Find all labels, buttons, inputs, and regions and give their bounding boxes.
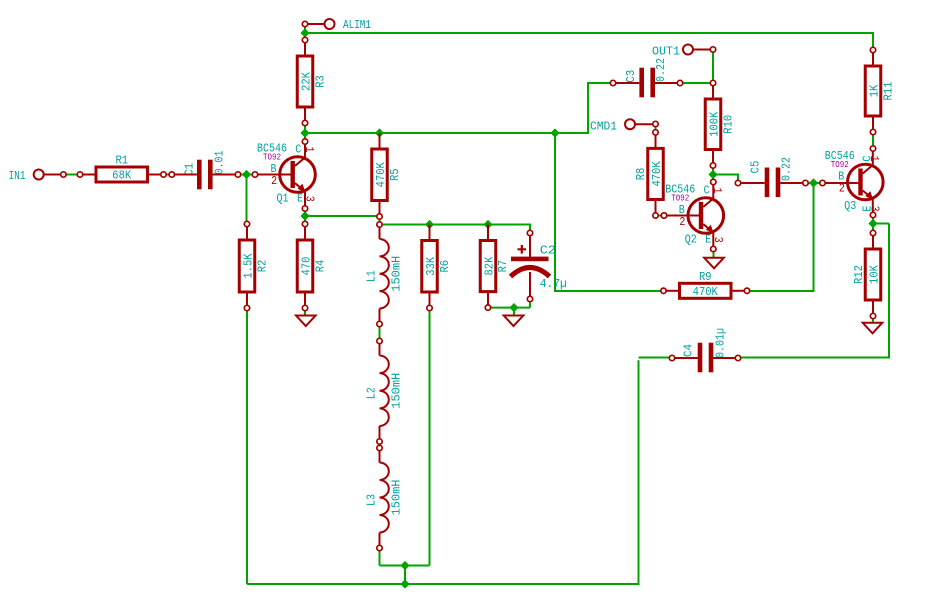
wire net Q3 emitter to R12 and R12 to ground [872, 217, 874, 323]
pin wires C5 [741, 182, 803, 184]
wire net node A (R3 bottom to C3) [305, 83, 611, 139]
ground below C2 [504, 316, 524, 327]
wire net feedback rail (R2 bottom / C4 left) [247, 311, 669, 584]
pin end R7 [485, 305, 490, 310]
pin wires C4 [675, 357, 736, 359]
svg-text:33K: 33K [424, 256, 438, 276]
svg-text:R6: R6 [438, 260, 452, 273]
pin end ALIM1 [302, 21, 307, 26]
svg-text:C2: C2 [540, 244, 556, 258]
wire net R7/C2 bottom to ground [491, 302, 530, 316]
inductor L1 [365, 225, 404, 325]
junction Q3 emitter / R12 / C4 [868, 219, 877, 228]
junction R7 top [483, 220, 492, 229]
svg-text:C: C [704, 184, 710, 198]
svg-text:TO92: TO92 [263, 153, 281, 163]
pin ends C2 [527, 230, 532, 235]
pin ends R3 [302, 37, 307, 42]
svg-text:C4: C4 [682, 344, 696, 357]
resistor R3 [297, 40, 327, 123]
svg-text:L1: L1 [365, 270, 379, 282]
svg-text:R10: R10 [721, 115, 735, 134]
pin OUT1 [652, 45, 710, 59]
capacitor C2 (polarized 4.7µ) [511, 236, 567, 297]
pin end R5 [377, 214, 382, 219]
resistor R12 [852, 233, 882, 316]
pin ends C1 [169, 172, 174, 177]
junction R3 bottom [300, 128, 309, 137]
svg-text:TO92: TO92 [831, 160, 849, 170]
pin wires C1 [174, 174, 235, 176]
svg-text:E: E [705, 232, 711, 246]
ground below Q2 [704, 258, 724, 269]
wire net L1 to L2 [379, 327, 381, 339]
capacitor C3 [624, 58, 668, 97]
resistor R7 [480, 225, 510, 308]
svg-text:470K: 470K [650, 161, 664, 187]
wire net L2 to L3 [379, 444, 381, 445]
svg-text:C5: C5 [749, 161, 763, 174]
svg-text:150mH: 150mH [390, 373, 404, 409]
wire net R5 to L1 [379, 219, 381, 222]
junction L3/R6 bottom node [400, 561, 409, 570]
svg-text:R2: R2 [255, 260, 269, 273]
svg-text:C: C [295, 143, 301, 157]
svg-text:2: 2 [679, 215, 685, 229]
svg-text:0.01µ: 0.01µ [714, 328, 728, 358]
pin ends R12 [870, 230, 875, 235]
wire net L3/R6 bottom [380, 311, 430, 584]
svg-text:82K: 82K [483, 256, 497, 276]
wire net R4 to ground [304, 311, 306, 316]
junction R5 top [375, 128, 384, 137]
pin wire Q1 base [258, 174, 291, 176]
svg-text:3: 3 [867, 206, 881, 212]
svg-text:100K: 100K [708, 111, 722, 137]
wire net Q1 emitter node [305, 211, 377, 221]
svg-text:ALIM1: ALIM1 [343, 18, 371, 32]
pin CMD1 [590, 119, 653, 133]
svg-text:0.22: 0.22 [654, 58, 668, 82]
resistor R9 [664, 270, 748, 299]
wire net R1 to C1 [166, 174, 169, 176]
svg-text:R8: R8 [634, 168, 648, 181]
wire net Q2 collector node to C5 [713, 168, 738, 180]
svg-text:R11: R11 [881, 82, 895, 101]
pin wire Q2 base [667, 215, 699, 217]
svg-text:IN1: IN1 [9, 169, 26, 183]
svg-text:22K: 22K [300, 71, 314, 91]
junction R6 top [425, 220, 434, 229]
svg-text:1K: 1K [868, 84, 882, 97]
wire net L1 top rail to C2 [382, 225, 530, 231]
pin ends Q2 [661, 213, 666, 218]
svg-text:150mH: 150mH [390, 256, 404, 292]
resistor R4 [297, 224, 327, 308]
pin ends C4 [669, 355, 674, 360]
svg-text:R1: R1 [115, 154, 128, 168]
pin IN1 [9, 169, 62, 183]
pin ends R11 [870, 47, 875, 52]
pin ends Q1 [252, 172, 257, 177]
junction Q2 collector / C5 [708, 170, 717, 179]
svg-text:150mH: 150mH [390, 480, 404, 516]
pin ends L2 [377, 338, 382, 343]
pin end R6 [427, 305, 432, 310]
junction Q1 emitter / R4 [300, 211, 309, 220]
svg-text:Q2: Q2 [685, 232, 697, 246]
svg-text:1: 1 [710, 188, 724, 194]
svg-text:1: 1 [302, 147, 316, 153]
pin ends C3 [610, 80, 615, 85]
junction bottom rail node [400, 579, 409, 588]
svg-text:R4: R4 [313, 260, 327, 273]
pin wire Q3 base [825, 182, 858, 184]
wire net R8 to Q2 base [658, 215, 661, 217]
capacitor C5 [749, 157, 794, 197]
svg-text:3: 3 [303, 196, 317, 202]
junction ALIM rail at R3 [300, 28, 309, 37]
resistor R6 [422, 225, 452, 309]
resistor R11 [865, 50, 895, 132]
svg-text:68K: 68K [112, 169, 132, 183]
svg-text:0.01: 0.01 [213, 151, 227, 175]
svg-text:470: 470 [300, 257, 314, 276]
pin ends C5 [735, 180, 740, 185]
junction node A to R9 [550, 128, 559, 137]
wire net Q1 base node [241, 175, 253, 222]
wire net C4 right to Q3 emitter [741, 224, 889, 358]
pin ends Q3 [820, 180, 825, 185]
svg-text:OUT1: OUT1 [652, 45, 680, 59]
wire net node A branch to R9 left [555, 133, 661, 291]
svg-text:Q3: Q3 [844, 199, 856, 213]
inductor L3 [365, 448, 404, 548]
ground below R12 [863, 323, 883, 334]
svg-text:R3: R3 [313, 75, 327, 88]
pin ends L3 [377, 445, 382, 450]
svg-text:2: 2 [271, 174, 277, 188]
svg-text:1.5K: 1.5K [242, 253, 256, 279]
svg-text:Q1: Q1 [277, 191, 289, 205]
wire net R11 to Q3 collector [872, 135, 874, 147]
inductor L2 [365, 341, 404, 442]
svg-text:L3: L3 [365, 494, 379, 506]
wire net C5 right / Q3 base / R9 right [750, 183, 820, 291]
wire net Q2 emitter to ground [713, 252, 715, 258]
junction C5 / Q3 base / R9 [809, 178, 818, 187]
pin ALIM1 [308, 18, 371, 32]
capacitor C1 [183, 151, 227, 190]
pin wires C3 [616, 82, 678, 84]
resistor R2 [239, 224, 269, 308]
svg-text:CMD1: CMD1 [590, 120, 617, 134]
svg-text:R9: R9 [699, 270, 712, 284]
pin ends R4 [302, 221, 307, 226]
svg-text:R12: R12 [852, 265, 866, 284]
svg-text:0.22: 0.22 [780, 157, 794, 181]
svg-text:E: E [297, 191, 303, 205]
transistor Q1 (Q1 BC546 TO92) [257, 142, 317, 207]
transistor Q3 (Q3 BC546 TO92) [825, 149, 883, 214]
svg-text:10K: 10K [868, 264, 882, 284]
pin ends R2 [244, 221, 249, 226]
pin ends R10 [710, 80, 715, 85]
svg-text:R7: R7 [496, 260, 510, 273]
pin ends L1 [377, 222, 382, 227]
svg-text:C3: C3 [624, 70, 638, 83]
junction Q1 base / R2 [242, 170, 251, 179]
svg-text:1: 1 [867, 156, 881, 162]
resistor R10 [705, 83, 735, 166]
ground below R4 [296, 316, 316, 327]
pin ends R1 [77, 172, 82, 177]
pin ends R9 [661, 288, 666, 293]
transistor Q2 (Q2 BC546 TO92) [665, 183, 725, 248]
svg-text:TO92: TO92 [671, 194, 689, 204]
svg-text:470K: 470K [374, 161, 388, 187]
svg-text:470K: 470K [693, 285, 719, 299]
pin ends R8 [653, 130, 658, 135]
wire net ALIM rail [305, 27, 873, 48]
svg-text:L2: L2 [365, 387, 379, 399]
svg-text:3: 3 [711, 237, 725, 243]
wire net CMD1 to R8 [655, 127, 657, 130]
pin end CMD1 [653, 121, 658, 126]
junction C2 bottom ground node [509, 303, 518, 312]
wire net OUT1 node [683, 52, 713, 83]
pin end OUT1 [710, 47, 715, 52]
capacitor C4 [682, 328, 728, 372]
resistor R1 [80, 154, 164, 183]
resistor R8 [634, 132, 664, 215]
wire net IN1 to R1 [66, 174, 78, 176]
pin end IN1 [61, 172, 66, 177]
resistor R5 [372, 133, 402, 217]
svg-text:4.7µ: 4.7µ [540, 277, 567, 291]
svg-text:R5: R5 [388, 168, 402, 181]
